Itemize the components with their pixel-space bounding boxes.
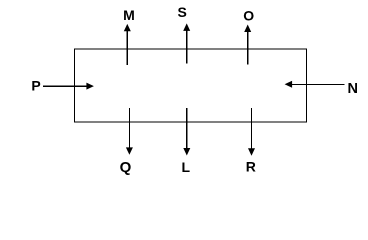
arrow S xyxy=(183,23,190,63)
arrow L xyxy=(183,108,190,156)
svg-text:S: S xyxy=(178,4,187,20)
svg-text:R: R xyxy=(246,159,256,175)
arrow M xyxy=(124,24,131,65)
svg-text:N: N xyxy=(347,81,357,97)
box xyxy=(75,49,307,122)
svg-text:O: O xyxy=(243,8,254,24)
svg-text:Q: Q xyxy=(120,159,132,176)
arrow R xyxy=(248,108,255,156)
svg-text:P: P xyxy=(31,77,40,93)
svg-text:L: L xyxy=(182,159,191,175)
arrow O xyxy=(244,25,251,65)
arrow P xyxy=(43,83,94,90)
arrow Q xyxy=(126,108,133,155)
arrow N xyxy=(285,81,345,88)
svg-text:M: M xyxy=(123,7,135,23)
